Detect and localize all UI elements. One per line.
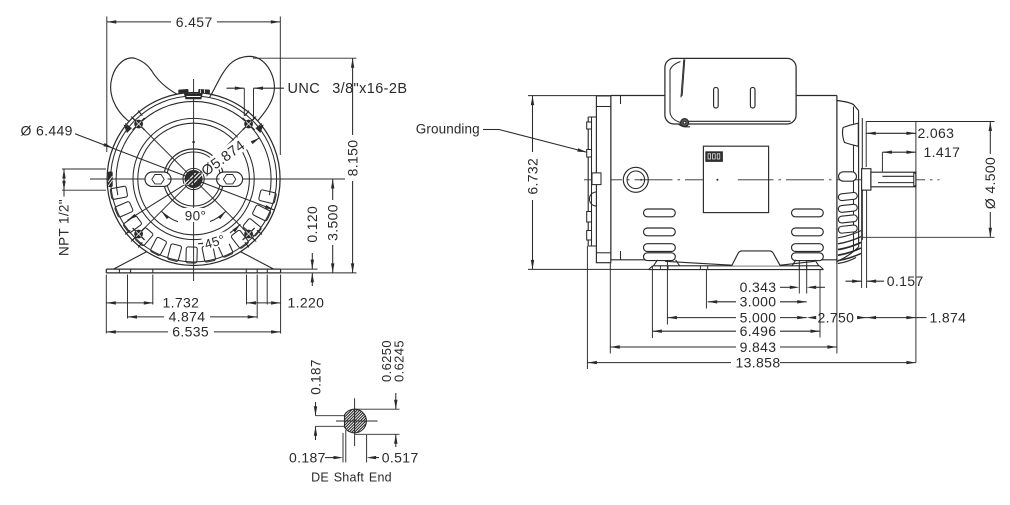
svg-text:Ø 6.449: Ø 6.449 <box>21 122 73 138</box>
svg-text:6.457: 6.457 <box>176 14 213 30</box>
svg-text:0.517: 0.517 <box>382 449 419 465</box>
svg-text:DE Shaft End: DE Shaft End <box>311 471 392 485</box>
svg-text:Grounding: Grounding <box>416 122 480 137</box>
svg-text:6.535: 6.535 <box>172 324 209 340</box>
svg-text:9.843: 9.843 <box>740 339 777 355</box>
svg-text:8.150: 8.150 <box>345 140 361 177</box>
svg-text:3.000: 3.000 <box>740 294 777 310</box>
svg-text:13.858: 13.858 <box>736 354 781 370</box>
svg-text:0.157: 0.157 <box>887 273 924 289</box>
svg-text:NPT 1/2": NPT 1/2" <box>57 199 72 256</box>
svg-text:6.496: 6.496 <box>740 323 777 339</box>
svg-text:0.120: 0.120 <box>304 206 320 243</box>
svg-text:0.6245: 0.6245 <box>392 340 407 382</box>
svg-text:4.874: 4.874 <box>169 309 206 325</box>
svg-text:Ø 4.500: Ø 4.500 <box>982 157 998 209</box>
svg-text:2.750: 2.750 <box>818 309 855 325</box>
svg-text:1.874: 1.874 <box>930 309 967 325</box>
svg-text:UNC 3/8"x16-2B: UNC 3/8"x16-2B <box>288 81 408 97</box>
svg-text:6.732: 6.732 <box>524 158 540 195</box>
svg-text:3.500: 3.500 <box>325 204 341 241</box>
svg-text:1.417: 1.417 <box>924 144 961 160</box>
svg-text:0.187: 0.187 <box>308 359 323 395</box>
svg-text:90°: 90° <box>185 209 206 224</box>
svg-text:1.220: 1.220 <box>288 295 325 311</box>
svg-text:2.063: 2.063 <box>918 125 955 141</box>
svg-text:0.187: 0.187 <box>289 449 326 465</box>
